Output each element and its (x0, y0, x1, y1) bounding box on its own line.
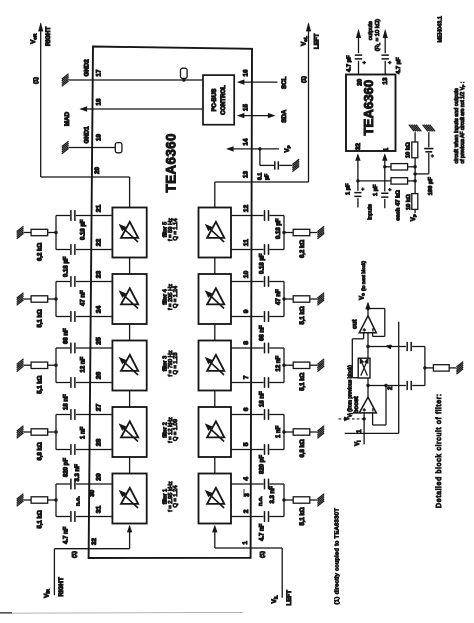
capacitor 18 nF pin26 (71, 377, 75, 388)
resistor 6,8 kΩ right-channel section 2 (48, 431, 56, 433)
capacitor 0.18 µF pin11 (265, 244, 269, 255)
svg-text:4: 4 (243, 477, 250, 481)
wire pin27 row (76, 414, 113, 416)
svg-text:32: 32 (91, 538, 98, 545)
node junction (282, 231, 285, 234)
wire pin2 capacitor (368, 385, 406, 387)
svg-text:820 pF: 820 pF (63, 458, 69, 477)
svg-text:Q = 1.24: Q = 1.24 (173, 486, 179, 508)
svg-text:n.c.: n.c. (76, 496, 82, 506)
svg-text:10: 10 (243, 271, 250, 279)
svg-text:12 nF: 12 nF (80, 356, 86, 372)
svg-text:5,1 kΩ: 5,1 kΩ (37, 510, 43, 528)
capacitor 47 nF pin23 (71, 276, 75, 287)
svg-text:6: 6 (243, 407, 250, 411)
capacitor 100uF (415, 173, 429, 175)
wire pin21 row (76, 215, 113, 217)
capacitor 1 nF pin27 (71, 409, 75, 420)
wire junction vertical (283, 484, 285, 517)
wire attenuator-cut (367, 333, 369, 358)
wire boost feedback (385, 386, 387, 426)
ground (317, 293, 324, 306)
svg-text:TEA6360: TEA6360 (361, 80, 376, 136)
svg-text:+: + (362, 408, 367, 411)
svg-text:13: 13 (243, 171, 250, 178)
pin 17 GND2 wire (69, 79, 203, 81)
wire cap common rail (424, 347, 426, 386)
pin 1 wire ViL (215, 547, 282, 549)
filter block 1 left channel (199, 474, 232, 524)
wire pin5 row (231, 449, 264, 451)
wire input pin32 mini (357, 155, 359, 181)
svg-text:0.18 µF: 0.18 µF (80, 219, 86, 240)
svg-text:24: 24 (96, 306, 103, 314)
wire ViR input (53, 549, 55, 596)
svg-text:68 nF: 68 nF (259, 325, 265, 341)
svg-text:−: − (371, 328, 376, 331)
wire boost-attenuator (367, 378, 369, 397)
wire junction vertical (55, 282, 57, 317)
svg-text:20: 20 (94, 167, 101, 174)
wire output pin13 (384, 61, 386, 75)
svg-text:820 pF: 820 pF (259, 455, 265, 474)
svg-text:0.18 µF: 0.18 µF (63, 256, 69, 277)
resistor 5,1 kΩ left-channel section 4 (284, 298, 293, 300)
wire pin4 capacitor (368, 346, 406, 348)
wire output pin20 (358, 61, 360, 75)
svg-text:Vi (from previous block): Vi (from previous block) (347, 365, 353, 418)
svg-text:LEFT: LEFT (286, 590, 293, 606)
svg-text:MAD: MAD (64, 111, 71, 126)
svg-text:4.7 µF: 4.7 µF (346, 55, 352, 72)
svg-text:boost: boost (353, 395, 360, 413)
ground (317, 226, 324, 239)
component small box pin19 (115, 143, 122, 153)
svg-text:27: 27 (96, 404, 103, 412)
svg-text:6,8 kΩ: 6,8 kΩ (300, 439, 306, 457)
wire Vi input (363, 413, 365, 445)
svg-text:GND1: GND1 (84, 126, 91, 144)
svg-text:5,1 kΩ: 5,1 kΩ (300, 372, 306, 390)
filter block 4 right channel (112, 274, 146, 324)
wire pin12 row (231, 215, 264, 217)
svg-text:1: 1 (242, 541, 249, 545)
svg-text:100 µF: 100 µF (428, 177, 434, 196)
capacitor 3.3 nF pin4 (265, 479, 269, 490)
wire chain filter2-filter1 left (214, 457, 216, 474)
block TEA6360 mini (346, 75, 396, 152)
wire junction vertical (283, 415, 285, 450)
svg-text:10 kΩ: 10 kΩ (406, 194, 412, 210)
svg-text:2: 2 (387, 386, 394, 390)
resistor 5,1 kΩ right-channel section 3 (48, 364, 56, 366)
svg-text:30: 30 (89, 489, 96, 496)
wire pin31 row (76, 516, 113, 518)
svg-text:TEA6360: TEA6360 (164, 133, 179, 192)
svg-text:RIGHT: RIGHT (45, 27, 52, 46)
svg-text:(1): (1) (34, 77, 40, 84)
svg-text:26: 26 (96, 372, 103, 380)
svg-text:Q = 1.14: Q = 1.14 (173, 219, 179, 241)
resistor 6,2 kΩ right-channel section 5 (48, 232, 56, 234)
svg-text:68 nF: 68 nF (63, 328, 69, 344)
svg-text:+: + (430, 154, 435, 157)
svg-text:+: + (361, 188, 366, 191)
svg-text:Q = 1.09: Q = 1.09 (173, 419, 179, 441)
svg-text:−: − (371, 408, 376, 411)
resistor 5,1 kΩ right-channel section 1 (48, 499, 56, 501)
resistor 6,8 kΩ left-channel section 2 (284, 431, 293, 433)
node junction (54, 430, 57, 433)
node pin4 (366, 345, 369, 348)
svg-text:6,8 kΩ: 6,8 kΩ (37, 442, 43, 460)
svg-text:18 nF: 18 nF (63, 394, 69, 410)
ground (17, 226, 24, 239)
filter block 5 right channel (112, 208, 146, 258)
svg-text:0.1: 0.1 (258, 173, 264, 180)
svg-text:3: 3 (244, 493, 251, 497)
svg-text:1 nF: 1 nF (276, 425, 282, 438)
svg-text:1 µF: 1 µF (345, 183, 351, 195)
node junction (54, 364, 57, 367)
svg-text:(1): (1) (302, 76, 308, 83)
node junction (54, 498, 57, 501)
svg-text:cut: cut (352, 319, 359, 329)
ground 100uF (423, 125, 436, 132)
svg-text:21: 21 (96, 205, 103, 213)
dashed arrow Vi from previous block (339, 418, 346, 420)
wire chain filter5-filter4 left (214, 258, 216, 275)
svg-text:I²C-BUS: I²C-BUS (211, 89, 218, 112)
svg-text:3.3 nF: 3.3 nF (270, 486, 276, 504)
svg-text:15: 15 (243, 104, 250, 111)
filter block 2 left channel (199, 407, 232, 457)
svg-text:20: 20 (357, 78, 364, 85)
node junction (282, 297, 285, 300)
capacitor 820 pF pin5 (265, 444, 269, 455)
component small box near pin17 (181, 68, 188, 78)
node junction (282, 364, 285, 367)
pin 13 wire to VoL (215, 181, 309, 183)
svg-text:12: 12 (243, 205, 250, 213)
wire cut feedback (368, 308, 385, 310)
svg-text:5,1 kΩ: 5,1 kΩ (37, 375, 43, 393)
svg-text:µF: µF (265, 174, 271, 180)
capacitor 820 pF pin28 (71, 444, 75, 455)
capacitor 18 nF pin7 (265, 377, 269, 388)
svg-text:9: 9 (243, 309, 250, 313)
node junction (282, 498, 285, 501)
wire input bypass to cut (363, 333, 365, 339)
resistor 47k pin1 (385, 166, 391, 168)
svg-text:outputs: outputs (368, 21, 374, 40)
capacitor 12 nF pin25 (71, 343, 75, 354)
capacitor 0.18 µF pin21 (71, 210, 75, 221)
svg-text:GND2: GND2 (84, 59, 91, 77)
wire junction vertical (55, 415, 57, 450)
svg-text:MEH043.1: MEH043.1 (438, 16, 444, 42)
svg-text:29: 29 (96, 473, 103, 481)
wire junction vertical (283, 216, 285, 250)
filter block 3 right channel (112, 341, 146, 391)
resistor 6,2 kΩ left-channel section 5 (284, 232, 293, 234)
ground (317, 426, 324, 439)
pin 19 GND1 wire (69, 147, 116, 149)
svg-text:10 kΩ: 10 kΩ (405, 142, 411, 158)
capacitor 1uF pin1 (381, 193, 388, 197)
wire SCL (244, 81, 278, 83)
pin 20 wire to VoR (41, 176, 130, 178)
wire VoL output (308, 24, 310, 183)
svg-text:Detailed block circuit of filt: Detailed block circuit of filter: (436, 393, 443, 508)
capacitor 4.7 nF pin2 (265, 511, 269, 522)
wire input pin1 mini (384, 155, 386, 167)
ground 0.1uF (292, 159, 299, 172)
svg-text:1 µF: 1 µF (373, 184, 379, 196)
filter block 3 left channel (199, 341, 232, 391)
svg-text:+: + (362, 328, 367, 331)
wire chain filter5-filter4 right (129, 258, 131, 275)
wire pin22 row (76, 249, 113, 251)
wire Vp pin14 (228, 148, 280, 150)
svg-text:(1) directly coupled to TEA63: (1) directly coupled to TEA6330T (335, 508, 341, 605)
wire junction vertical (55, 216, 57, 250)
svg-text:19: 19 (96, 134, 103, 141)
svg-text:22: 22 (96, 239, 103, 247)
svg-text:4.7 nF: 4.7 nF (259, 523, 265, 541)
resistor 10k lower (412, 194, 418, 210)
svg-text:RIGHT: RIGHT (58, 577, 65, 596)
node junction (54, 231, 57, 234)
svg-text:32: 32 (355, 143, 362, 150)
resistor 5,1 kΩ left-channel section 1 (284, 499, 293, 501)
svg-text:0.18 µF: 0.18 µF (276, 218, 282, 239)
attenuator symbol (358, 358, 370, 378)
node pin2 (366, 384, 369, 387)
svg-text:(RL = 10 kΩ): (RL = 10 kΩ) (375, 19, 381, 51)
capacitor 68 nF pin9 (265, 311, 269, 322)
wire pin9 row (231, 316, 264, 318)
op-amp U1 TEA6360 IC outline (89, 47, 252, 559)
svg-text:7: 7 (243, 375, 250, 379)
wire junction vertical (55, 484, 57, 517)
ground (17, 426, 24, 439)
capacitor 0.18 µF pin12 (265, 210, 269, 221)
svg-text:CONTROL: CONTROL (221, 85, 227, 115)
svg-text:(1): (1) (72, 551, 78, 558)
ground (17, 293, 24, 306)
svg-text:n.c.: n.c. (258, 496, 264, 506)
svg-text:SCL: SCL (281, 76, 288, 89)
wire L frame (345, 432, 399, 434)
capacitor 1 nF pin6 (265, 409, 269, 420)
svg-text:+: + (387, 188, 392, 191)
wire VoR output (40, 24, 42, 178)
svg-text:18 nF: 18 nF (259, 391, 265, 407)
svg-text:SDA: SDA (281, 109, 288, 123)
wire pin25 row (76, 347, 113, 349)
capacitor 0.1uF (259, 149, 261, 166)
filter block 5 left channel (199, 208, 232, 258)
capacitor 47 nF pin10 (265, 276, 269, 287)
wire pin29 row (76, 483, 113, 485)
wire junction vertical (283, 282, 285, 317)
svg-text:18: 18 (96, 98, 103, 105)
capacitor 4.7 nF pin31 (71, 511, 75, 522)
svg-text:28: 28 (96, 439, 103, 447)
svg-text:17: 17 (96, 69, 103, 76)
ground (17, 494, 24, 507)
capacitor 1uF pin32 (354, 193, 361, 197)
wire pin11 row (231, 249, 264, 251)
svg-text:47 nF: 47 nF (276, 289, 282, 305)
wire chain filter3-filter2 right (129, 391, 131, 408)
wire pin24 row (76, 316, 113, 318)
capacitor 4.7uF right (382, 55, 389, 59)
svg-text:11: 11 (243, 239, 250, 246)
svg-text:31: 31 (96, 506, 103, 514)
wire junction vertical (55, 348, 57, 383)
wire pin4 row (231, 483, 264, 485)
wire SDA (244, 115, 269, 117)
wire pin26 row (76, 382, 113, 384)
pin 32 wire ViR (54, 548, 129, 550)
capacitor 3.3 nF pin29 (71, 479, 75, 490)
filter block 1 right channel (112, 474, 146, 524)
resistor 5,1 kΩ left-channel section 3 (284, 364, 293, 366)
svg-text:Q = 1.23: Q = 1.23 (173, 353, 179, 375)
resistor 5,1 kΩ right-channel section 4 (48, 298, 56, 300)
node junction (282, 430, 285, 433)
wire pin28 row (76, 449, 113, 451)
svg-text:14: 14 (243, 138, 250, 145)
resistor filter external (425, 367, 434, 369)
svg-text:Q = 1.24: Q = 1.24 (173, 286, 179, 308)
wire ViL input (281, 548, 283, 598)
amplifier cut (359, 316, 376, 333)
svg-text:25: 25 (96, 337, 103, 345)
node Vp junction (258, 147, 261, 150)
svg-text:12 nF: 12 nF (276, 355, 282, 371)
wire pin8 row (231, 347, 264, 349)
wire pin23 row (76, 281, 113, 283)
svg-text:23: 23 (96, 271, 103, 279)
capacitor 4.7uF left (355, 55, 362, 59)
resistor 10k upper (414, 132, 416, 142)
wire pin10 row (231, 281, 264, 283)
svg-text:of previous AF circuit are not: of previous AF circuit are not 1/2 VP : (460, 82, 466, 164)
svg-text:5,1 kΩ: 5,1 kΩ (37, 309, 43, 327)
filter block 4 left channel (199, 274, 232, 324)
wire pin7 row (231, 382, 264, 384)
filter block 2 right channel (112, 407, 146, 457)
svg-text:(1): (1) (260, 551, 266, 558)
resistor 47k pin32 (358, 180, 391, 182)
svg-text:inputs: inputs (368, 204, 374, 220)
arrow MAD (80, 106, 88, 111)
block I2C-BUS CONTROL (203, 75, 234, 125)
svg-text:0.18 µF: 0.18 µF (259, 253, 265, 274)
svg-text:(to next block): (to next block) (361, 260, 367, 291)
wire junction vertical (283, 348, 285, 383)
capacitor 12 nF pin8 (265, 343, 269, 354)
wire pin6 row (231, 414, 264, 416)
ground (317, 359, 324, 372)
svg-text:5,1 kΩ: 5,1 kΩ (300, 507, 306, 525)
ground filter external (456, 362, 463, 375)
svg-text:LEFT: LEFT (314, 33, 321, 49)
svg-text:4: 4 (387, 345, 394, 349)
wire chain filter4-filter3 right (129, 324, 131, 341)
svg-text:each 47 kΩ: each 47 kΩ (395, 190, 401, 221)
svg-text:13: 13 (382, 77, 389, 84)
ground GND2 (62, 74, 69, 87)
svg-text:6,2 kΩ: 6,2 kΩ (37, 243, 43, 261)
amplifier boost (359, 397, 376, 413)
svg-text:1 nF: 1 nF (80, 426, 86, 439)
wire chain filter2-filter1 right (129, 457, 131, 474)
ground 10k upper (409, 125, 422, 132)
svg-text:6,2 kΩ: 6,2 kΩ (300, 240, 306, 258)
wire Vo output (367, 303, 369, 316)
svg-text:4.7 µF: 4.7 µF (396, 57, 402, 74)
svg-text:+: + (388, 61, 394, 64)
svg-text:3.3 nF: 3.3 nF (75, 464, 81, 482)
svg-text:47 nF: 47 nF (80, 290, 86, 306)
wire chain filter4-filter3 left (214, 324, 216, 341)
svg-text:8: 8 (243, 341, 250, 345)
svg-text:1: 1 (356, 429, 363, 433)
capacitor 0.18 µF pin22 (71, 244, 75, 255)
ground (17, 359, 24, 372)
ground (317, 494, 324, 507)
svg-text:5,1 kΩ: 5,1 kΩ (300, 306, 306, 324)
wire chain filter3-filter2 left (214, 391, 216, 408)
node junction (54, 297, 57, 300)
capacitor 68 nF pin24 (71, 311, 75, 322)
wire pin2 row (231, 516, 264, 518)
svg-text:2: 2 (243, 509, 250, 513)
svg-text:+: + (362, 61, 368, 64)
svg-text:5: 5 (243, 442, 250, 446)
pin 18 MAD wire (81, 108, 204, 110)
svg-text:4.7 nF: 4.7 nF (63, 526, 69, 544)
wire bias rail (414, 167, 416, 195)
svg-text:1: 1 (383, 147, 390, 151)
scan artifact line (0, 611, 243, 614)
svg-text:16: 16 (243, 69, 250, 76)
ground GND1 (62, 141, 69, 154)
